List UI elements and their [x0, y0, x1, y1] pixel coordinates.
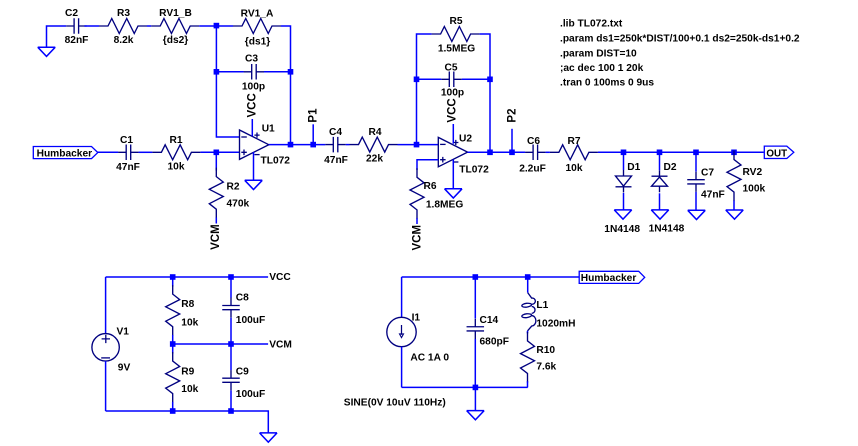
svg-text:C6: C6	[527, 136, 540, 147]
svg-text:D2: D2	[664, 162, 677, 173]
svg-text:470k: 470k	[227, 198, 250, 209]
junction C3 left	[214, 69, 220, 75]
wire U1 V- pin	[253, 152, 255, 180]
ground source	[467, 411, 485, 420]
ground C7	[688, 210, 706, 219]
svg-text:1020mH: 1020mH	[536, 319, 575, 330]
wire R8 bottom	[172, 335, 174, 344]
svg-text:P2: P2	[506, 109, 518, 123]
wire R6 to VCM flag	[416, 218, 418, 224]
resistor R7	[550, 145, 598, 160]
wire D2 to ground	[659, 193, 661, 210]
svg-text:C7: C7	[701, 167, 714, 178]
wire C6 to R7	[546, 151, 550, 153]
svg-text:R9: R9	[181, 366, 194, 377]
capacitor C4	[325, 137, 346, 153]
wire U1 V+ pin	[251, 119, 253, 136]
wire P1 stub	[312, 124, 314, 144]
diode D1	[616, 176, 632, 186]
junction L1 top	[525, 274, 531, 280]
op-amp U2	[438, 137, 467, 166]
svg-text:C4: C4	[329, 127, 342, 138]
svg-text:I1: I1	[412, 312, 421, 323]
svg-text:{ds2}: {ds2}	[163, 35, 189, 46]
svg-text:100p: 100p	[441, 88, 464, 99]
junction C14 top	[473, 274, 479, 280]
svg-text:8.2k: 8.2k	[114, 35, 134, 46]
svg-text:47nF: 47nF	[116, 162, 140, 173]
wire V1 top	[105, 277, 107, 334]
wire C1 to R1	[139, 151, 153, 153]
wire node to +input	[216, 151, 239, 153]
diode D2	[652, 175, 668, 177]
svg-text:1.8MEG: 1.8MEG	[426, 200, 463, 211]
svg-text:10k: 10k	[181, 318, 198, 329]
wire loop2 right vertical	[489, 79, 491, 152]
svg-text:10k: 10k	[566, 163, 583, 174]
svg-text:82nF: 82nF	[65, 35, 89, 46]
svg-text:.lib TL072.txt: .lib TL072.txt	[560, 18, 623, 29]
wire I1 top	[401, 277, 403, 317]
wire C4 to R4	[346, 144, 350, 146]
svg-text:R7: R7	[567, 136, 580, 147]
junction D1 node	[621, 150, 627, 156]
junction C7 node	[693, 150, 699, 156]
wire D1 to ground	[623, 193, 625, 210]
wire L1 top	[527, 277, 529, 293]
wire R3 to RV1_B	[147, 25, 151, 27]
junction P1 node	[310, 142, 316, 148]
svg-text:C3: C3	[245, 54, 258, 65]
svg-text:P1: P1	[307, 108, 319, 123]
junction U2 -input node	[414, 142, 420, 148]
wire U1 output	[269, 144, 326, 146]
svg-text:9V: 9V	[118, 363, 131, 374]
svg-text:.tran 0 100ms 0 9us: .tran 0 100ms 0 9us	[560, 77, 654, 88]
wire C7 to ground	[695, 192, 697, 210]
capacitor C6	[525, 145, 546, 161]
capacitor C14	[467, 319, 485, 339]
svg-text:SINE(0V 10uV 110Hz): SINE(0V 10uV 110Hz)	[344, 398, 446, 409]
svg-text:VCC: VCC	[269, 272, 291, 283]
svg-text:RV2: RV2	[743, 167, 763, 178]
capacitor C2	[66, 18, 87, 34]
wire C9 bottom	[230, 390, 232, 411]
svg-text:Humbacker: Humbacker	[581, 273, 637, 284]
wire U2 +input to R6	[417, 160, 438, 170]
svg-text:VCC: VCC	[447, 98, 459, 122]
svg-text:2.2uF: 2.2uF	[519, 164, 546, 175]
svg-text:1N4148: 1N4148	[649, 223, 685, 234]
wire VCC rail	[106, 276, 269, 278]
svg-text:VCM: VCM	[269, 340, 292, 351]
svg-text:;ac dec 100 1 20k: ;ac dec 100 1 20k	[560, 63, 644, 74]
resistor R1	[152, 145, 200, 160]
wire C5 right	[462, 78, 490, 80]
wire R7 to output rail	[598, 151, 764, 153]
capacitor C5	[441, 72, 462, 88]
svg-text:VCM: VCM	[210, 224, 222, 250]
junction C8 top	[228, 274, 234, 280]
capacitor C1	[118, 145, 139, 161]
wire loop1 top	[216, 25, 233, 27]
resistor R9	[166, 352, 180, 403]
wire node to U2 -input	[417, 144, 439, 146]
wire loop1 to inverting input	[216, 72, 239, 137]
wire I1 bottom	[401, 347, 403, 388]
port Humbacker input	[33, 147, 98, 159]
ground D1	[614, 210, 632, 219]
junction RV2 node	[731, 150, 737, 156]
wire node down to R2	[215, 152, 217, 170]
resistor RV1_A	[233, 19, 281, 34]
wire to D2	[659, 152, 661, 170]
svg-text:7.6k: 7.6k	[536, 361, 556, 372]
wire loop2 left vertical	[417, 34, 432, 145]
junction R8 top	[170, 274, 176, 280]
svg-text:RV1_B: RV1_B	[159, 8, 192, 19]
ground V1 rail	[260, 433, 278, 442]
resistor R6	[410, 168, 424, 219]
voltage source V1	[92, 334, 119, 361]
svg-text:.param DIST=10: .param DIST=10	[560, 49, 637, 60]
svg-text:C1: C1	[120, 135, 133, 146]
junction VCM left	[170, 341, 176, 347]
ground U1	[245, 180, 263, 189]
junction gnd rail R9	[170, 408, 176, 414]
resistor RV2	[727, 151, 741, 202]
wire R5 to right vertical	[480, 34, 490, 79]
wire R9 bottom	[172, 402, 174, 411]
resistor R4	[350, 137, 398, 152]
svg-text:10k: 10k	[168, 162, 185, 173]
wire C3 row	[216, 71, 244, 73]
capacitor C8	[222, 298, 240, 318]
wire source gnd rail	[402, 386, 528, 388]
junction gnd rail C9	[228, 408, 234, 414]
wire R1 to node	[200, 151, 216, 153]
svg-text:10k: 10k	[181, 384, 198, 395]
ground D2	[651, 210, 669, 219]
resistor RV1_B	[151, 19, 199, 34]
junction output node2	[487, 150, 493, 156]
junction loop1 top-left	[214, 23, 220, 29]
junction output node1	[288, 142, 294, 148]
svg-text:.param ds1=250k*DIST/100+0.1 d: .param ds1=250k*DIST/100+0.1 ds2=250k-ds…	[560, 34, 800, 45]
junction U1 +input node	[214, 150, 220, 156]
svg-text:C8: C8	[236, 292, 249, 303]
resistor R10	[521, 332, 535, 383]
junction C5 left	[414, 77, 420, 83]
op-amp U1	[240, 130, 269, 159]
svg-text:U1: U1	[262, 124, 275, 135]
svg-text:680pF: 680pF	[480, 337, 509, 348]
wire to C7	[695, 152, 697, 171]
svg-text:R1: R1	[169, 135, 182, 146]
wire V1 bottom	[105, 361, 107, 411]
wire C2 left to ground	[47, 26, 67, 47]
svg-text:AC 1A 0: AC 1A 0	[410, 353, 449, 364]
svg-text:47nF: 47nF	[701, 190, 725, 201]
svg-text:TL072: TL072	[261, 156, 291, 167]
resistor R3	[99, 19, 147, 34]
wire R9 top	[172, 344, 174, 354]
wire gnd rail	[106, 411, 269, 433]
svg-text:D1: D1	[627, 162, 640, 173]
svg-text:VCM: VCM	[411, 225, 423, 251]
wire C2 to R3	[84, 25, 99, 27]
svg-text:R2: R2	[227, 181, 240, 192]
svg-text:VCC: VCC	[247, 93, 259, 117]
svg-text:R8: R8	[181, 299, 194, 310]
wire to D1	[623, 152, 625, 170]
svg-text:OUT: OUT	[766, 148, 787, 159]
wire RV2 to ground	[733, 201, 735, 211]
wire C5 left	[417, 78, 442, 80]
svg-text:Humbacker: Humbacker	[37, 148, 93, 159]
svg-text:{ds1}: {ds1}	[245, 37, 271, 48]
svg-text:U2: U2	[459, 134, 472, 145]
svg-text:R5: R5	[449, 16, 462, 27]
wire C3 right	[264, 71, 291, 73]
wire C14 bottom	[474, 339, 476, 387]
ground	[38, 47, 56, 56]
svg-text:47nF: 47nF	[324, 155, 348, 166]
wire U2 V+ pin	[452, 124, 454, 144]
resistor R5	[432, 27, 480, 42]
wire C9 top	[230, 344, 232, 370]
port Humbacker source	[579, 271, 645, 283]
svg-text:1N4148: 1N4148	[604, 224, 640, 235]
wire C3 left rail	[215, 26, 217, 72]
junction D2 node	[657, 150, 663, 156]
wire right vertical to output	[290, 72, 292, 145]
svg-text:R3: R3	[117, 8, 130, 19]
svg-text:22k: 22k	[366, 154, 383, 165]
wire R8 top	[172, 277, 174, 287]
ground RV2	[726, 210, 744, 219]
capacitor C9	[222, 370, 240, 390]
wire U2 output	[468, 151, 525, 153]
svg-text:C5: C5	[444, 62, 457, 73]
svg-text:C2: C2	[65, 8, 78, 19]
resistor R8	[166, 285, 180, 336]
wire R4 to node	[398, 144, 417, 146]
wire RV1_B to node	[199, 25, 216, 27]
wire to RV2	[733, 152, 735, 153]
wire C14 top	[474, 277, 476, 319]
wire R2 to VCM flag	[215, 218, 217, 224]
svg-text:R4: R4	[368, 127, 381, 138]
junction C5 right	[487, 77, 493, 83]
wire C8 top	[230, 277, 232, 298]
svg-text:100p: 100p	[242, 81, 265, 92]
resistor R2	[209, 168, 223, 219]
capacitor C7	[687, 172, 705, 192]
svg-text:1.5MEG: 1.5MEG	[438, 44, 475, 55]
junction P2 node	[509, 150, 515, 156]
svg-text:R6: R6	[424, 181, 437, 192]
wire humbacker rail	[402, 276, 580, 278]
wire VCM rail	[173, 343, 268, 345]
wire port to C1	[98, 151, 119, 154]
svg-text:100uF: 100uF	[236, 389, 265, 400]
wire gnd stub	[474, 387, 476, 410]
svg-text:L1: L1	[536, 300, 548, 311]
svg-text:R10: R10	[536, 345, 555, 356]
junction VCM C9	[228, 341, 234, 347]
wire P2 stub	[511, 129, 513, 153]
wire C8 bottom	[230, 318, 232, 344]
junction source gnd	[473, 385, 479, 391]
capacitor C3	[244, 64, 265, 80]
current source I1	[387, 317, 416, 346]
svg-text:100uF: 100uF	[236, 315, 265, 326]
svg-text:C14: C14	[480, 315, 499, 326]
wire RV1_A to right vertical	[281, 26, 291, 72]
wire U2 V- pin	[452, 159, 454, 188]
inductor L1	[528, 293, 536, 331]
wire R10 bottom	[527, 381, 529, 387]
svg-text:TL072: TL072	[459, 165, 489, 176]
wire L1 to R10	[527, 331, 529, 334]
svg-text:V1: V1	[117, 326, 130, 337]
junction C3 right	[288, 69, 294, 75]
svg-text:C9: C9	[236, 366, 249, 377]
port OUT	[764, 146, 794, 158]
svg-text:RV1_A: RV1_A	[241, 8, 274, 19]
ground U2	[445, 189, 463, 198]
svg-text:100k: 100k	[743, 183, 766, 194]
